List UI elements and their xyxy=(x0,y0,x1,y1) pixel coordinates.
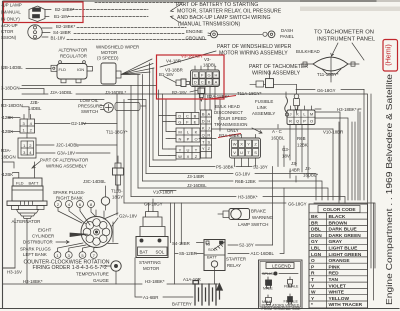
text: B2A T11A labels xyxy=(207,91,262,99)
svg-text:W: W xyxy=(311,290,316,296)
wire B1-18V dashed xyxy=(68,16,148,18)
svg-text:E: E xyxy=(194,120,197,125)
wires into starting motor xyxy=(149,199,182,284)
svg-text:E: E xyxy=(194,73,197,78)
svg-text:A1A-10R: A1A-10R xyxy=(183,277,201,282)
svg-text:PART OF TACHOMETER: PART OF TACHOMETER xyxy=(249,64,308,70)
svg-text:RELAY: RELAY xyxy=(227,263,241,268)
text: J2-16DBL xyxy=(303,166,318,178)
svg-text:H3-16V: H3-16V xyxy=(7,270,22,275)
svg-text:D: D xyxy=(194,80,197,85)
svg-text:B: B xyxy=(202,112,205,117)
text: J3-14BR J2-16DBL mid xyxy=(187,174,207,188)
text: left column wire labels xyxy=(1,65,127,160)
svg-text:16DBL*: 16DBL* xyxy=(303,173,318,178)
svg-text:A: A xyxy=(207,112,210,117)
wire A1-6BR xyxy=(135,258,193,297)
svg-text:SWITCH: SWITCH xyxy=(81,109,98,114)
svg-text:B: B xyxy=(208,80,211,85)
text: part of tachometer xyxy=(249,64,308,77)
svg-text:GAUGE: GAUGE xyxy=(93,278,109,283)
svg-text:LINK: LINK xyxy=(257,105,267,110)
text: plug numbers right xyxy=(57,202,93,207)
backup lamp switch connector circle xyxy=(28,25,52,39)
wire -12BK to grid xyxy=(8,117,20,119)
wire G2A-18V leader xyxy=(112,218,118,226)
svg-text:B1-18V: B1-18V xyxy=(159,72,174,77)
svg-text:B1-18V: B1-18V xyxy=(54,14,69,19)
svg-text:GRAY: GRAY xyxy=(329,239,343,245)
svg-text:N: N xyxy=(179,137,182,142)
text: four speed xyxy=(214,116,247,133)
svg-text:R6B: R6B xyxy=(297,136,306,141)
battery xyxy=(193,281,222,306)
text: backup lamp note xyxy=(1,3,76,41)
wire S2-18Y xyxy=(228,244,273,246)
scan smudge top right xyxy=(300,7,400,12)
svg-text:ENGINE: ENGINE xyxy=(186,29,203,34)
plug symbol in red box xyxy=(164,77,190,87)
svg-text:WARNING: WARNING xyxy=(252,215,274,220)
text: engine ground xyxy=(186,29,206,41)
wire J3-16DBL xyxy=(3,100,146,109)
starting motor xyxy=(136,212,168,258)
svg-text:12BK: 12BK xyxy=(297,143,308,148)
svg-text:G2-18V: G2-18V xyxy=(71,121,86,126)
svg-text:M: M xyxy=(178,130,181,135)
svg-text:V10-18BR: V10-18BR xyxy=(153,190,173,195)
svg-text:BATT: BATT xyxy=(29,181,39,186)
text: part of alternator xyxy=(40,158,88,169)
svg-text:FEMALE: FEMALE xyxy=(284,285,299,289)
svg-text:U: U xyxy=(240,150,243,155)
bulkhead disconnect grid DCB/GFE xyxy=(169,113,199,125)
text: grid letters WXYZ VUTS xyxy=(233,142,258,156)
svg-text:DARK GREEN: DARK GREEN xyxy=(329,233,362,239)
alternator body xyxy=(7,178,47,219)
svg-text:LAMP SWITCH: LAMP SWITCH xyxy=(238,222,268,227)
svg-text:FIRING ORDER 1-8-4-3-6-5-7-2: FIRING ORDER 1-8-4-3-6-5-7-2 xyxy=(33,265,107,271)
text: bulk head disconnect xyxy=(214,104,243,115)
leader arrows to PART OF BATTERY note xyxy=(171,5,180,23)
svg-text:R: R xyxy=(311,271,315,277)
backup lamp connector (manual) hex symbol xyxy=(29,6,51,22)
svg-text:Engine Compartment . . 1969 Be: Engine Compartment . . 1969 Belvedere & … xyxy=(385,73,394,305)
svg-text:S4-18BR: S4-18BR xyxy=(53,30,71,35)
svg-text:BR: BR xyxy=(311,220,318,226)
wire S5-12BR xyxy=(175,253,203,255)
wire H3-16V stub xyxy=(3,267,15,269)
bulkhead disconnect grid YUT/WXZ xyxy=(169,146,200,159)
svg-text:G2A-18V: G2A-18V xyxy=(119,214,137,219)
svg-text:GY: GY xyxy=(311,239,319,245)
text: starting motor labels xyxy=(140,249,165,254)
text: color code table xyxy=(311,207,363,308)
svg-text:D: D xyxy=(178,114,181,119)
grid stem wires down from EFGH connector xyxy=(195,87,220,131)
text: starter relay labels xyxy=(206,242,217,260)
svg-text:T11A-18GY*: T11A-18GY* xyxy=(237,91,262,96)
svg-text:LEFT BANK: LEFT BANK xyxy=(23,252,47,257)
alternator field connector grid 1 2 / 3 4 xyxy=(18,134,36,158)
svg-text:ALTERNATOR: ALTERNATOR xyxy=(59,48,88,53)
svg-text:B2A-18BK*: B2A-18BK* xyxy=(219,133,242,138)
red strike B2A-18BK xyxy=(205,96,236,100)
text: R6B-12BK right xyxy=(297,136,308,148)
text: FLD BATT xyxy=(16,181,39,186)
svg-text:T11-18GY*: T11-18GY* xyxy=(106,130,128,135)
svg-text:MALE: MALE xyxy=(263,287,273,291)
svg-text:SPLICE: SPLICE xyxy=(262,272,276,276)
svg-text:B1-18V: B1-18V xyxy=(51,35,66,40)
svg-text:TO TACHOMETER ON: TO TACHOMETER ON xyxy=(314,30,374,36)
svg-text:S: S xyxy=(207,140,210,145)
long wire under motor xyxy=(22,85,157,87)
svg-text:YELLOW: YELLOW xyxy=(329,296,350,302)
svg-text:D: D xyxy=(202,119,205,124)
temperature gauge sender xyxy=(102,261,121,284)
alternator terminals xyxy=(3,162,35,178)
svg-text:W: W xyxy=(233,142,237,147)
svg-text:BLACK: BLACK xyxy=(329,214,346,220)
distributor xyxy=(70,210,118,248)
right nested verticals xyxy=(333,94,371,268)
svg-text:J2-16DBL: J2-16DBL xyxy=(187,183,207,188)
svg-text:STARTER: STARTER xyxy=(226,257,246,262)
svg-text:ALTERNATOR: ALTERNATOR xyxy=(12,219,41,224)
svg-text:G3-18V: G3-18V xyxy=(235,172,250,177)
svg-text:B2-18BK*: B2-18BK* xyxy=(56,24,76,29)
svg-text:O: O xyxy=(310,119,313,124)
svg-text:IGN: IGN xyxy=(77,67,84,72)
svg-text:DISTRIBUTOR: DISTRIBUTOR xyxy=(23,240,53,245)
svg-text:TRANSMISSION: TRANSMISSION xyxy=(214,122,247,127)
svg-text:LIGHT GREEN: LIGHT GREEN xyxy=(329,252,362,258)
svg-text:(2B-14DBL: (2B-14DBL xyxy=(1,65,23,70)
svg-text:S: S xyxy=(254,150,257,155)
svg-text:-12BK: -12BK xyxy=(1,172,13,177)
wire G3A-18V xyxy=(36,152,110,154)
bundle feeder verticals to bulkhead stubs xyxy=(141,90,169,156)
svg-text:PART OF WINDSHIELD WIPER: PART OF WINDSHIELD WIPER xyxy=(217,44,292,50)
svg-text:Y: Y xyxy=(202,146,205,151)
svg-text:RED: RED xyxy=(329,271,340,277)
svg-text:B2-18V: B2-18V xyxy=(172,90,187,95)
svg-text:DARK BLUE: DARK BLUE xyxy=(329,227,358,233)
text: S2 A1C xyxy=(239,243,274,257)
svg-text:W: W xyxy=(178,154,182,159)
svg-text:U: U xyxy=(187,148,190,153)
text: regulator terminals xyxy=(59,67,85,72)
svg-text:J2B-: J2B- xyxy=(30,100,40,105)
text: alternator regulator xyxy=(59,48,88,59)
red strike B2A lower xyxy=(218,134,241,138)
svg-text:18V: 18V xyxy=(282,154,290,159)
text: tall grid letters xyxy=(202,112,211,152)
svg-text:LGN: LGN xyxy=(311,252,322,258)
middle red box connector grid EFGH DCBA xyxy=(191,66,220,87)
svg-text:COLOR CODE: COLOR CODE xyxy=(323,207,356,213)
text: grid letters YUT WXZ xyxy=(178,148,198,160)
svg-text:T: T xyxy=(311,277,314,283)
svg-text:ACK-UP: ACK-UP xyxy=(1,23,18,28)
svg-text:18DBL: 18DBL xyxy=(203,63,217,68)
wire -12BK lower xyxy=(11,131,20,133)
svg-text:H3-18BK*: H3-18BK* xyxy=(238,195,258,200)
text: spark plugs right bank xyxy=(53,190,86,201)
four speed grid stem wires xyxy=(235,135,256,167)
distributor leader xyxy=(56,241,69,244)
svg-text:H3-18BK*: H3-18BK* xyxy=(23,279,43,284)
spark plugs left bank xyxy=(54,243,97,258)
svg-text:G: G xyxy=(178,120,181,125)
wire H3-18BK run xyxy=(131,197,345,204)
svg-text:P: P xyxy=(187,137,190,142)
text: grid letters JKLM RQPO xyxy=(289,112,313,124)
starter relay xyxy=(204,240,225,285)
svg-text:WIRING ASSEMBLY: WIRING ASSEMBLY xyxy=(252,71,301,77)
svg-text:P5-18BK: P5-18BK xyxy=(216,165,234,170)
spark plugs right bank xyxy=(55,201,96,226)
svg-text:-12BK: -12BK xyxy=(1,129,13,134)
svg-text:(3 SPEED): (3 SPEED) xyxy=(97,56,119,61)
text: J3-14BR xyxy=(289,161,300,173)
svg-text:J: J xyxy=(208,126,210,131)
svg-text:WINDSHIELD WIPER: WINDSHIELD WIPER xyxy=(96,45,139,50)
svg-text:TEMPERATURE: TEMPERATURE xyxy=(76,272,109,277)
text: labels near coil xyxy=(106,130,128,200)
text: grid letters MLK NPO xyxy=(178,130,197,142)
svg-text:BULK HEAD: BULK HEAD xyxy=(215,104,240,109)
text: S4 S5 xyxy=(172,241,197,256)
svg-text:G6-18GY: G6-18GY xyxy=(317,88,336,93)
svg-text:V3-18DGN: V3-18DGN xyxy=(181,54,202,59)
text: part of windshield wiper xyxy=(217,44,292,57)
svg-text:DBL: DBL xyxy=(311,227,321,233)
svg-text:LEGEND: LEGEND xyxy=(272,263,292,268)
svg-text:PART OF BATTERY TO STARTING: PART OF BATTERY TO STARTING xyxy=(176,2,258,8)
svg-text:ORANGE: ORANGE xyxy=(329,258,351,264)
top-left red highlight box xyxy=(4,2,84,23)
wire G6-18GY bottom run xyxy=(124,203,375,268)
svg-text:H3-18BK*: H3-18BK* xyxy=(145,279,165,284)
svg-text:J3C-14DBL: J3C-14DBL xyxy=(83,179,106,184)
svg-text:Q: Q xyxy=(296,119,299,124)
svg-text:VIOLET: VIOLET xyxy=(329,283,346,289)
svg-text:R: R xyxy=(207,133,210,138)
text: dash panel xyxy=(280,28,295,39)
svg-text:C: C xyxy=(186,114,189,119)
svg-text:T11B-: T11B- xyxy=(111,189,123,194)
text: P5-18BK etc xyxy=(216,165,307,207)
text: counter clockwise xyxy=(24,260,110,272)
svg-text:H3-18BK*: H3-18BK* xyxy=(337,107,357,112)
svg-text:MOTOR: MOTOR xyxy=(101,50,117,55)
bulkhead connector grid JKLM/RQPO xyxy=(287,106,315,125)
svg-text:LIGHT BLUE: LIGHT BLUE xyxy=(329,246,359,252)
svg-text:18DGN: 18DGN xyxy=(1,155,16,160)
svg-text:A - C: A - C xyxy=(272,129,282,134)
battery-to-dash eyelet wire xyxy=(208,31,275,38)
svg-text:FOUR SPEED: FOUR SPEED xyxy=(218,116,247,121)
text: G3-18V right xyxy=(282,147,290,159)
text: grid letters DCB GFE xyxy=(178,114,196,125)
ignition coil xyxy=(104,156,124,219)
svg-text:WHITE: WHITE xyxy=(329,290,345,296)
svg-text:X: X xyxy=(187,154,190,159)
svg-text:IG: IG xyxy=(206,242,210,247)
legend box xyxy=(259,260,303,309)
wire G3-18V run xyxy=(146,174,316,201)
svg-text:FLD: FLD xyxy=(59,67,67,72)
svg-text:H: H xyxy=(215,73,218,78)
four speed leader arrow xyxy=(252,128,262,133)
svg-text:V: V xyxy=(233,150,236,155)
text: eight cylinder distributor xyxy=(23,228,54,245)
text: low oil pressure switch xyxy=(78,98,102,114)
svg-text:J3-: J3- xyxy=(291,161,298,166)
svg-text:A1C-16DBL: A1C-16DBL xyxy=(251,251,275,256)
four-speed connector grid WXYZ/VUTS xyxy=(230,138,261,158)
text: plug numbers left xyxy=(56,253,95,258)
wire A1C-16DBL xyxy=(228,188,284,254)
svg-text:Y: Y xyxy=(179,148,182,153)
svg-text:RIGHT BANK: RIGHT BANK xyxy=(56,196,83,201)
svg-text:G3A-18V: G3A-18V xyxy=(57,151,75,156)
text: red box labels xyxy=(159,54,217,96)
svg-text:DISCONNECT: DISCONNECT xyxy=(214,110,243,115)
svg-text:PRESSURE: PRESSURE xyxy=(78,104,102,109)
svg-text:PINK: PINK xyxy=(329,264,341,270)
svg-text:*: * xyxy=(311,302,313,308)
svg-text:BAT: BAT xyxy=(140,249,149,254)
svg-text:X: X xyxy=(240,142,243,147)
svg-text:DASH: DASH xyxy=(281,28,293,33)
wire H3-18BK bottom xyxy=(3,283,219,285)
svg-text:IN ONLY): IN ONLY) xyxy=(1,16,20,21)
svg-text:FUSIBLE: FUSIBLE xyxy=(255,99,273,104)
svg-text:EIGHT: EIGHT xyxy=(38,228,52,233)
svg-text:BATT: BATT xyxy=(207,255,217,260)
svg-text:LOW OIL: LOW OIL xyxy=(80,98,99,103)
alternator assembly leader xyxy=(32,162,40,169)
svg-text:K: K xyxy=(202,126,205,131)
svg-text:TAN: TAN xyxy=(329,277,339,283)
svg-text:R: R xyxy=(289,119,292,124)
svg-text:MOTOR, STARTER RELAY, OIL PRES: MOTOR, STARTER RELAY, OIL PRESSURE xyxy=(177,9,282,15)
brake warning lamp switch xyxy=(218,209,250,220)
bulkhead lens connector xyxy=(301,57,359,77)
svg-text:BULKHEAD: BULKHEAD xyxy=(296,49,320,54)
svg-text:(MANUAL: (MANUAL xyxy=(1,10,21,15)
wire J2C-14DBL xyxy=(36,144,117,146)
text: to tachometer xyxy=(314,30,376,43)
wire G2-18V xyxy=(35,123,118,125)
wire V10-18BR runs xyxy=(153,129,333,191)
svg-text:MOTOR: MOTOR xyxy=(143,266,159,271)
svg-text:Q: Q xyxy=(202,133,205,138)
svg-text:CYLINDER: CYLINDER xyxy=(32,234,54,239)
svg-text:K: K xyxy=(195,130,198,135)
svg-text:AND BACK-UP LAMP SWITCH WIRING: AND BACK-UP LAMP SWITCH WIRING xyxy=(177,15,270,21)
svg-text:C: C xyxy=(201,80,204,85)
svg-text:G: G xyxy=(208,73,211,78)
svg-text:MOTOR WIRING ASSEMBLY: MOTOR WIRING ASSEMBLY xyxy=(219,51,288,57)
wire mid run xyxy=(138,188,328,200)
svg-text:B2A-18BK*: B2A-18BK* xyxy=(207,94,230,99)
starter feed terminal element xyxy=(294,94,300,113)
svg-text:J: J xyxy=(290,112,292,117)
text: windshield wiper motor xyxy=(96,45,139,61)
svg-text:14DBL: 14DBL xyxy=(28,106,42,111)
svg-text:SPARK PLUGS: SPARK PLUGS xyxy=(20,247,51,252)
svg-text:J2-: J2- xyxy=(305,166,312,171)
oil sender circle xyxy=(101,186,109,210)
svg-text:O: O xyxy=(194,137,197,142)
svg-text:H: H xyxy=(207,119,210,124)
svg-text:R3-18DGN: R3-18DGN xyxy=(1,103,23,108)
svg-text:O: O xyxy=(311,258,315,264)
wire P5-18BK / S2-18Y run xyxy=(150,167,273,246)
svg-text:(MANUAL TRNSMISSION): (MANUAL TRNSMISSION) xyxy=(178,22,241,28)
plug symbol below grid xyxy=(190,88,205,101)
svg-text:BATTERY: BATTERY xyxy=(172,302,192,307)
svg-text:3-18DGN: 3-18DGN xyxy=(1,86,20,91)
svg-text:P: P xyxy=(303,119,306,124)
text: fusible link xyxy=(252,99,275,116)
wires J3-14BR J2-16DBL verticals xyxy=(290,125,308,183)
svg-text:LBL: LBL xyxy=(311,246,320,252)
text: A/C 16DBL xyxy=(271,129,285,141)
wires below alternator xyxy=(3,219,27,284)
svg-text:18GY: 18GY xyxy=(112,195,123,200)
svg-text:SOL: SOL xyxy=(208,247,217,252)
svg-text:PANEL: PANEL xyxy=(280,34,295,39)
svg-text:(Hemi): (Hemi) xyxy=(384,44,393,66)
svg-text:T11-18GY*: T11-18GY* xyxy=(317,72,339,77)
text: bottom left labels xyxy=(7,270,43,285)
svg-text:V3-: V3- xyxy=(204,57,211,62)
bulkhead tall grid xyxy=(201,110,212,158)
svg-text:BROWN: BROWN xyxy=(329,220,348,226)
svg-text:ASSEMBLY: ASSEMBLY xyxy=(252,111,275,116)
svg-text:J2A-16DBL: J2A-16DBL xyxy=(50,90,73,95)
wiper leader line xyxy=(160,51,216,67)
text: legend xyxy=(262,263,302,311)
oil switch connector grid 3 4 / 1 2 xyxy=(20,115,35,134)
wire B2A-18BK feed xyxy=(199,138,216,140)
wire R6B-12BK run xyxy=(143,181,323,200)
text: spark plugs left bank xyxy=(20,247,51,258)
svg-text:S5-12BR: S5-12BR xyxy=(179,251,197,256)
wire 3-18DGN xyxy=(20,89,44,95)
svg-text:FLD: FLD xyxy=(16,181,24,186)
bulkhead disconnect grid MLK/NPO xyxy=(169,128,200,142)
svg-text:G3-: G3- xyxy=(282,147,290,152)
wire S4-18BR dashed xyxy=(74,33,184,35)
svg-text:BK: BK xyxy=(311,214,318,220)
svg-text:B2-18BK*: B2-18BK* xyxy=(55,7,75,12)
svg-text:14BR: 14BR xyxy=(289,168,300,173)
svg-text:B: B xyxy=(194,114,197,119)
svg-text:PART OF ALTERNATOR: PART OF ALTERNATOR xyxy=(40,158,88,163)
svg-text:WITH TRACER: WITH TRACER xyxy=(329,302,363,308)
text: temperature gauge xyxy=(76,272,109,284)
svg-text:J2C-14DBL: J2C-14DBL xyxy=(56,143,79,148)
wire R3-18DGN stub xyxy=(22,107,29,118)
wire B2-18BK(2) dashed xyxy=(77,27,186,29)
svg-text:S4-18BR: S4-18BR xyxy=(172,241,190,246)
